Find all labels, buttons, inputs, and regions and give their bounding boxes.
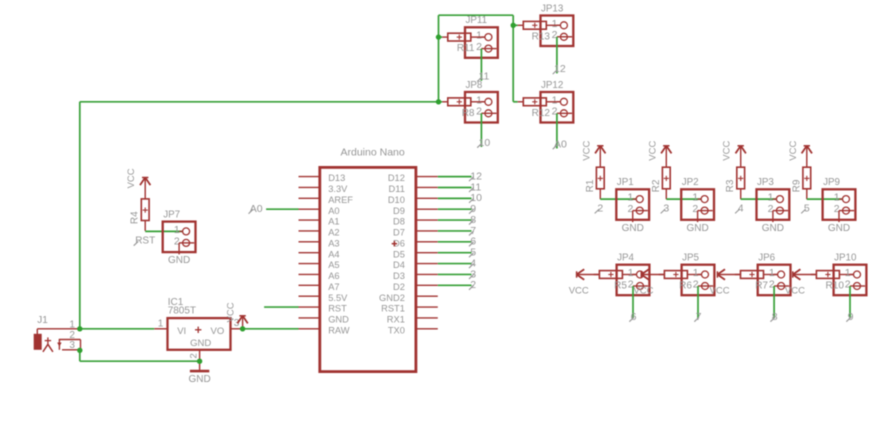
- svg-text:R13: R13: [532, 31, 551, 42]
- svg-text:1: 1: [769, 267, 775, 279]
- svg-text:R12: R12: [532, 108, 551, 119]
- svg-text:D12: D12: [388, 173, 405, 183]
- svg-text:R2: R2: [651, 179, 662, 192]
- svg-text:VO: VO: [211, 326, 225, 337]
- svg-text:GND: GND: [762, 223, 784, 234]
- svg-text:RST: RST: [328, 304, 347, 314]
- svg-text:GND: GND: [328, 315, 349, 325]
- svg-text:JP11: JP11: [466, 15, 488, 26]
- svg-text:D8: D8: [393, 217, 405, 227]
- svg-text:GND2: GND2: [379, 293, 405, 303]
- svg-text:4: 4: [738, 202, 744, 214]
- svg-text:VCC: VCC: [710, 285, 730, 296]
- svg-text:A2: A2: [328, 228, 339, 238]
- svg-text:GND: GND: [622, 223, 644, 234]
- svg-text:JP7: JP7: [163, 209, 180, 220]
- svg-text:D3: D3: [393, 271, 405, 281]
- svg-text:JP10: JP10: [834, 253, 857, 264]
- svg-text:A5: A5: [328, 260, 339, 270]
- svg-text:A6: A6: [328, 271, 339, 281]
- svg-text:VCC: VCC: [722, 141, 733, 161]
- svg-text:D4: D4: [393, 260, 405, 270]
- svg-text:7805T: 7805T: [168, 306, 196, 317]
- svg-text:1: 1: [845, 267, 851, 279]
- svg-text:R1: R1: [585, 179, 596, 192]
- svg-text:7: 7: [696, 311, 702, 323]
- svg-text:VCC: VCC: [226, 302, 237, 322]
- svg-text:A0: A0: [554, 138, 567, 150]
- svg-text:R5: R5: [614, 280, 627, 291]
- svg-text:JP13: JP13: [541, 3, 564, 14]
- svg-text:VCC: VCC: [647, 141, 658, 161]
- svg-text:1: 1: [476, 30, 482, 42]
- svg-text:JP9: JP9: [823, 177, 840, 188]
- svg-text:JP3: JP3: [757, 177, 774, 188]
- svg-text:D11: D11: [389, 184, 405, 194]
- svg-text:RAW: RAW: [328, 325, 350, 335]
- svg-text:R11: R11: [457, 43, 475, 54]
- svg-text:VCC: VCC: [569, 285, 589, 296]
- svg-text:5: 5: [804, 202, 810, 214]
- svg-text:5.5V: 5.5V: [328, 293, 348, 303]
- svg-text:10: 10: [479, 137, 491, 149]
- svg-text:JP5: JP5: [682, 253, 699, 264]
- svg-text:D13: D13: [328, 173, 345, 183]
- svg-text:Arduino Nano: Arduino Nano: [341, 146, 405, 158]
- svg-text:D5: D5: [393, 249, 405, 259]
- svg-text:GND: GND: [190, 338, 211, 349]
- svg-text:VCC: VCC: [785, 285, 805, 296]
- svg-text:1: 1: [174, 224, 180, 236]
- svg-text:9: 9: [848, 311, 854, 323]
- svg-text:RX1: RX1: [387, 315, 405, 325]
- svg-text:1: 1: [627, 192, 633, 204]
- svg-text:1: 1: [69, 319, 75, 330]
- svg-text:1: 1: [552, 94, 558, 106]
- svg-text:3: 3: [69, 340, 75, 351]
- svg-text:JP4: JP4: [617, 253, 634, 264]
- svg-text:RST1: RST1: [381, 304, 405, 314]
- svg-text:VCC: VCC: [633, 285, 653, 296]
- svg-text:R8: R8: [462, 108, 475, 119]
- svg-text:11: 11: [479, 71, 490, 83]
- svg-text:A4: A4: [328, 249, 339, 259]
- svg-text:R3: R3: [725, 179, 736, 192]
- svg-text:A1: A1: [328, 217, 339, 227]
- svg-text:A7: A7: [328, 282, 339, 292]
- svg-text:JP12: JP12: [541, 80, 563, 91]
- svg-text:JP1: JP1: [617, 177, 634, 188]
- svg-text:8: 8: [772, 311, 778, 323]
- svg-text:A3: A3: [328, 238, 339, 248]
- svg-text:1: 1: [834, 192, 840, 204]
- svg-text:1: 1: [158, 319, 164, 330]
- svg-text:1: 1: [768, 192, 774, 204]
- svg-text:A0: A0: [250, 203, 263, 215]
- svg-text:1: 1: [552, 18, 558, 30]
- svg-text:R7: R7: [755, 280, 768, 291]
- svg-text:6: 6: [631, 311, 637, 323]
- svg-text:3: 3: [663, 202, 669, 214]
- svg-text:VI: VI: [177, 326, 186, 337]
- svg-text:1: 1: [692, 192, 698, 204]
- svg-text:1: 1: [628, 267, 634, 279]
- svg-text:VCC: VCC: [126, 168, 137, 188]
- svg-text:D2: D2: [393, 282, 405, 292]
- svg-text:D7: D7: [393, 228, 405, 238]
- svg-text:2: 2: [597, 202, 603, 214]
- svg-text:1: 1: [693, 267, 699, 279]
- svg-text:VCC: VCC: [788, 141, 799, 161]
- svg-text:R4: R4: [130, 211, 141, 224]
- svg-text:AREF: AREF: [328, 195, 353, 205]
- svg-text:R9: R9: [791, 179, 802, 192]
- svg-text:2: 2: [189, 353, 200, 358]
- svg-text:12: 12: [554, 63, 566, 75]
- svg-text:1: 1: [476, 94, 482, 106]
- svg-text:JP2: JP2: [682, 177, 699, 188]
- svg-text:A0: A0: [328, 206, 339, 216]
- svg-text:R10: R10: [826, 280, 845, 291]
- svg-text:J1: J1: [37, 315, 48, 326]
- svg-text:VCC: VCC: [581, 141, 592, 161]
- svg-text:GND: GND: [686, 223, 708, 234]
- svg-text:GND: GND: [188, 374, 210, 385]
- svg-text:3.3V: 3.3V: [328, 184, 348, 194]
- svg-text:GND: GND: [828, 223, 850, 234]
- svg-text:D10: D10: [388, 195, 405, 205]
- svg-text:GND: GND: [168, 255, 190, 266]
- svg-text:JP6: JP6: [758, 253, 775, 264]
- svg-text:TX0: TX0: [388, 325, 405, 335]
- svg-text:R6: R6: [679, 280, 692, 291]
- svg-text:D9: D9: [393, 206, 405, 216]
